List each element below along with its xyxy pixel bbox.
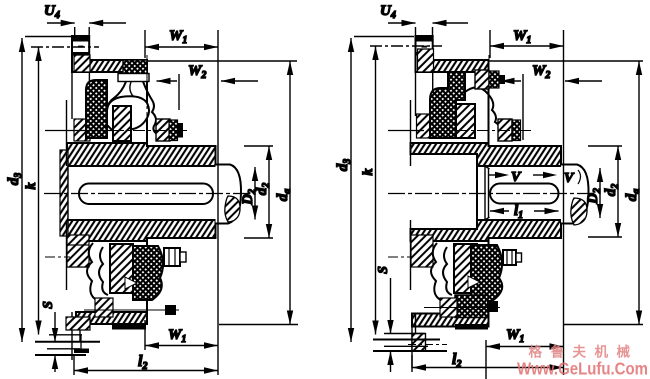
dimension d2 xyxy=(244,146,273,238)
right upper element nut xyxy=(489,71,499,88)
right dimension W1 top xyxy=(490,28,564,375)
hub bottom black strip xyxy=(112,324,146,330)
right lower element hatch bottom xyxy=(440,298,457,317)
right lower element center block xyxy=(454,244,477,293)
right dimension d3 xyxy=(335,37,414,343)
upper bolt washer xyxy=(118,74,149,82)
lower stud nub xyxy=(165,305,176,315)
right dimension da xyxy=(489,61,644,325)
right dimension V keyway xyxy=(489,170,557,185)
right upper element claw outline xyxy=(465,87,501,134)
right shaft break section xyxy=(571,198,587,225)
lower bolt centerline xyxy=(45,256,70,258)
flange bolt nut top xyxy=(73,36,89,42)
centerline main axis left xyxy=(44,193,252,195)
right foot bolt centerline xyxy=(408,344,447,346)
flange web lower hatch xyxy=(67,235,89,267)
lower element center block xyxy=(110,244,133,293)
svg-text:Www.GeLufu.Com: Www.GeLufu.Com xyxy=(517,359,648,379)
lower stud line xyxy=(84,309,179,311)
flange bolt shank dash xyxy=(78,46,84,48)
right foot lines xyxy=(384,333,425,335)
right label V shaft xyxy=(564,170,581,186)
right dimension U4 xyxy=(380,3,468,36)
hub top sleeve band xyxy=(67,143,216,166)
flange bottom hatch xyxy=(66,317,90,330)
centerline main axis right xyxy=(388,193,596,195)
right flange face dark line xyxy=(416,52,432,56)
right lower element claw inner xyxy=(443,247,452,295)
dimension S xyxy=(41,301,58,372)
right dimension l1 xyxy=(490,203,559,221)
right shaft end xyxy=(561,165,589,224)
right upper element rubber xyxy=(430,72,465,138)
flange corner hatch top xyxy=(74,55,90,72)
flange web lines xyxy=(66,100,68,166)
svg-text:k: k xyxy=(24,183,39,190)
keyway slot xyxy=(79,184,213,205)
upper bolt centerline xyxy=(146,55,148,133)
right lower stud nub xyxy=(487,301,498,312)
right lower bolt centerline xyxy=(388,256,413,258)
right counterbore xyxy=(412,154,477,229)
right upper bolt centerline xyxy=(488,55,490,133)
upper element claw neck right xyxy=(143,82,157,135)
right shaft end face xyxy=(485,166,490,220)
dimension k xyxy=(24,47,99,335)
dimension U4 xyxy=(44,3,126,36)
dimension W1 bottom xyxy=(145,320,218,350)
upper element claw curl xyxy=(130,82,133,96)
right hub top rim band xyxy=(426,60,489,72)
upper element bolt xyxy=(123,60,147,74)
dimension l2 xyxy=(74,353,218,375)
right upper element axis line xyxy=(388,130,424,132)
svg-text:k: k xyxy=(361,169,376,176)
upper element rubber block xyxy=(86,80,107,138)
right lower element hex bolt xyxy=(503,250,516,265)
right upper element center block xyxy=(456,104,475,138)
right flange bolt nut top xyxy=(416,36,432,42)
right upper element right block xyxy=(498,119,512,141)
dimension W2 xyxy=(157,63,259,110)
left flange plate top arm xyxy=(72,36,89,72)
right dimension W1 bottom xyxy=(486,327,564,379)
right dimension S xyxy=(376,266,394,372)
right flange corner hatch top xyxy=(418,49,434,72)
right keyway slot xyxy=(490,184,559,204)
right upper element nub xyxy=(499,75,505,84)
watermark chinese red xyxy=(517,344,648,379)
upper element claw neck left xyxy=(107,82,126,111)
right lower element rubber xyxy=(471,245,502,301)
upper element right rubber xyxy=(169,120,178,141)
bore outline xyxy=(68,166,212,220)
right hub bottom sleeve band xyxy=(411,220,562,241)
right dimension d2 xyxy=(588,146,622,237)
upper element claw bulb xyxy=(107,96,149,130)
lower element flange boss xyxy=(67,245,89,267)
flange bottom arm xyxy=(72,312,80,342)
dimension W1 top xyxy=(145,28,218,375)
right lower stud line xyxy=(424,307,500,309)
upper element right nub xyxy=(177,123,183,138)
hub flange right face xyxy=(146,60,148,146)
right hub bottom black strip xyxy=(455,324,488,330)
svg-text:S: S xyxy=(376,266,391,274)
right hub flange right face xyxy=(488,60,490,146)
lower element white triangle xyxy=(125,277,137,289)
shaft break section xyxy=(225,196,240,222)
right hub bottom rim band xyxy=(412,314,489,327)
lower element left hatch xyxy=(95,298,113,317)
right dimension k xyxy=(361,46,442,335)
right flange web lower hatch xyxy=(411,235,433,267)
hub bottom rim band xyxy=(76,312,147,324)
flange face dark line xyxy=(73,52,89,56)
right hub top sleeve band xyxy=(411,143,562,166)
lower element claw outline xyxy=(87,243,109,302)
hub bottom sleeve band xyxy=(67,220,216,241)
hub top rim band xyxy=(76,60,147,72)
right flange bolt shank dash xyxy=(422,46,428,48)
flange foot lines xyxy=(49,334,82,336)
right lower element white triangle xyxy=(468,276,480,288)
svg-text:S: S xyxy=(41,301,56,309)
right bore lines xyxy=(477,165,561,167)
dimension da xyxy=(147,61,298,325)
upper element axis line xyxy=(45,130,112,132)
right upper element right rubber xyxy=(512,120,521,141)
upper element center block xyxy=(113,106,131,141)
right flange plate top arm xyxy=(416,36,433,72)
lower element hex bolt xyxy=(164,248,180,266)
right flange web lines xyxy=(410,100,412,166)
brake hub stub left xyxy=(60,150,68,236)
lower element claw inner xyxy=(99,247,108,295)
right lower element claw outline xyxy=(431,243,453,302)
svg-text:格鲁夫机械: 格鲁夫机械 xyxy=(529,344,639,360)
right flange web upper hatch xyxy=(417,114,432,138)
right dimension D2 xyxy=(585,168,603,218)
right flange bolt lug xyxy=(412,334,426,352)
right dimension W2 xyxy=(501,63,603,140)
dimension d3 xyxy=(6,37,71,343)
right flange bottom arm xyxy=(412,314,416,369)
upper element right block xyxy=(156,119,170,141)
shaft end right xyxy=(216,165,242,224)
right lower element rubber bottom xyxy=(455,295,488,318)
dimension D2 xyxy=(240,167,258,220)
flange bolt hole bottom xyxy=(74,349,89,354)
right dimension l2 xyxy=(412,351,564,372)
right upper element bolt xyxy=(475,70,489,89)
lower element rubber xyxy=(133,246,163,300)
flange web upper hatch xyxy=(74,119,90,141)
